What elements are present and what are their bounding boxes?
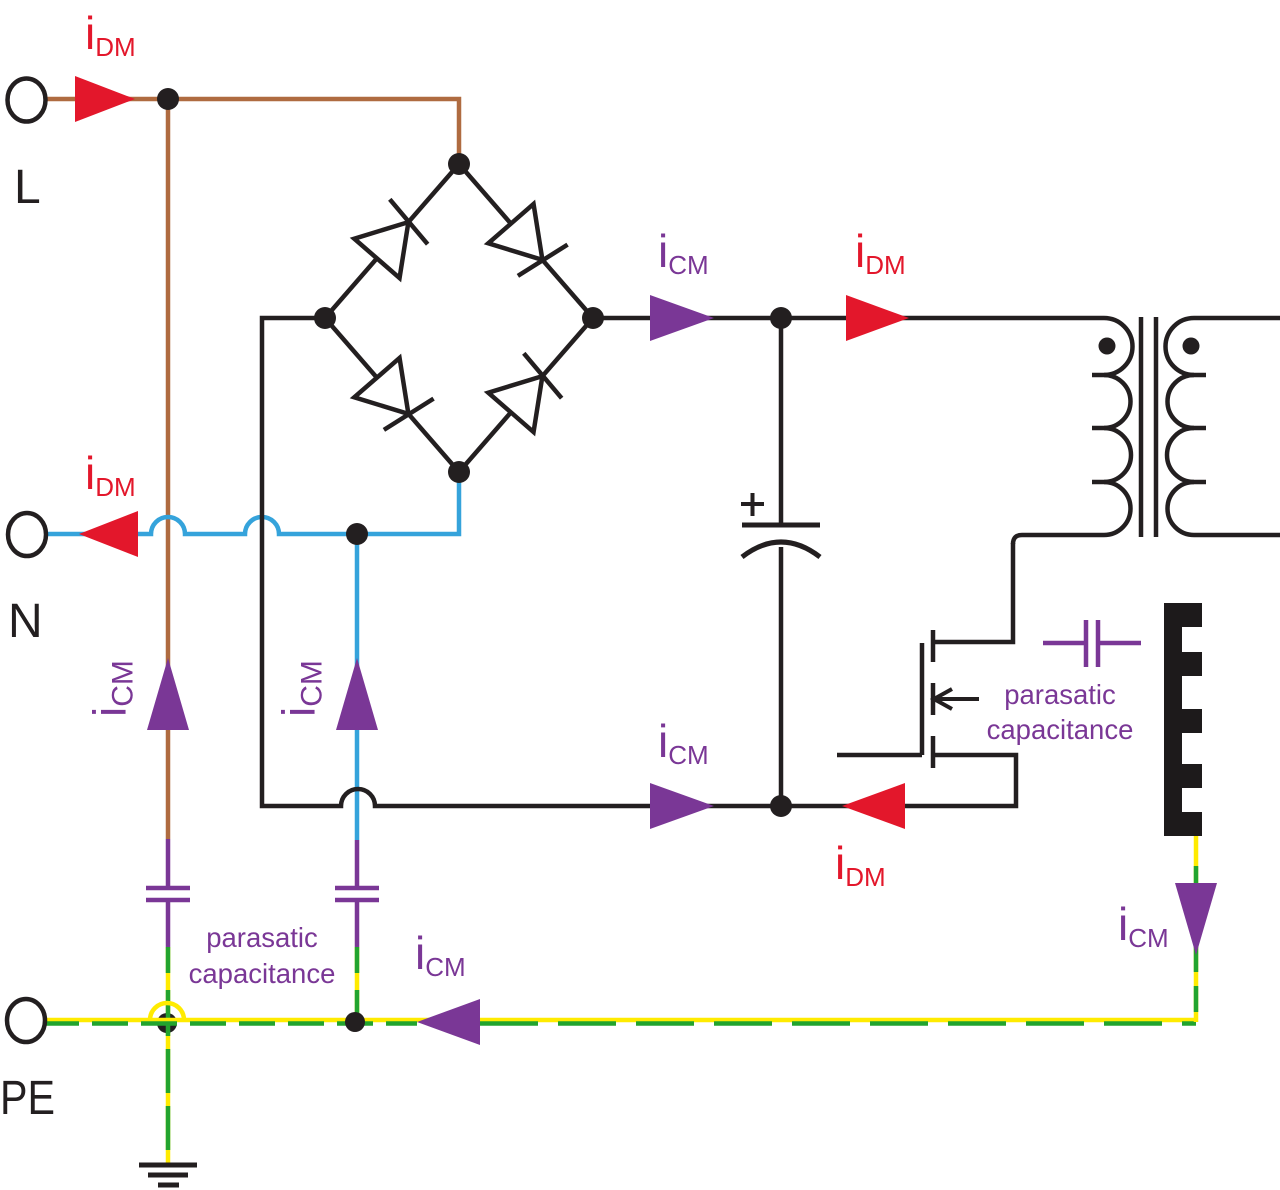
node bridge left [314,307,336,329]
diode D1 top-left [354,199,434,278]
wire PE yellow base vertical left [166,947,171,1167]
wire purple stub below parasitic capacitor C1 [166,900,171,947]
wire L brown top rail [42,99,459,166]
arrow iCM purple down at heatsink [1175,883,1217,955]
wire PE green dashes horizontal [43,1021,417,1026]
svg-text:PE: PE [0,1072,55,1125]
wire brown vertical from L junction [166,99,171,839]
arrow iDM red right at L [75,76,135,122]
wire transformer bottom to MOSFET drain [933,543,1013,642]
parasitic capacitor C1 plates [146,888,190,900]
node bottom rail capacitor junction [770,795,792,817]
transformer T1 primary winding ticks [1092,375,1113,482]
transformer T1 secondary winding ticks [1185,375,1206,482]
capacitor C3 curved bottom plate [742,542,820,557]
capacitor C3 plus sign [741,493,764,516]
wire N cyan with hops [43,474,459,534]
arrow iDM red right on top rail [846,295,909,341]
wire purple stub above parasitic capacitor C1 [166,839,171,886]
node bridge bottom [448,461,470,483]
arrow iCM purple right on bottom rail [650,783,714,829]
wire bridge edge top-right [459,164,593,318]
wire bridge edge bottom-right [459,318,593,472]
wire PE green dashes horizontal right part [480,1021,1196,1026]
node L junction [157,88,179,110]
arrow iCM purple left on PE line [417,999,480,1045]
svg-text:capacitance: capacitance [987,714,1134,745]
arrow iCM purple up on brown line [147,658,189,730]
transformer T1 primary phase dot [1099,338,1116,355]
heatsink [1164,603,1202,836]
ground [139,1165,197,1185]
diode D2 top-right [488,204,568,283]
node top rail capacitor junction [770,307,792,329]
terminal N [8,513,46,556]
wire PE yellow base vertical right from heatsink [1194,836,1199,1022]
parasitic capacitor C4 plates [1086,620,1098,667]
transistor Q1 gate lead [837,753,922,758]
wire PE yellow base vertical mid [355,947,360,1022]
svg-text:capacitance: capacitance [189,958,336,989]
arrow iDM red left on bottom rail [842,783,905,829]
wire yellow hop at PE junction [150,1003,184,1020]
node bridge top [448,153,470,175]
wire PE green dashes vertical mid [355,947,360,1022]
node bridge right [582,307,604,329]
wire capacitor top stem [779,318,784,524]
wire bridge edge bottom-left [325,318,459,472]
svg-text:L: L [14,161,41,214]
wire PE green dashes vertical right [1194,866,1199,1022]
arrow iCM purple up on cyan line [336,658,378,730]
arrow iCM purple right on top rail [650,295,714,341]
svg-text:parasatic: parasatic [206,922,318,953]
wire PE green dashes vertical left [166,947,171,1150]
terminal L [8,79,46,122]
transformer T1 secondary winding [1166,318,1280,535]
transformer T1 secondary phase dot [1183,338,1200,355]
capacitor C3 electrolytic top plate [742,523,820,528]
node PE junction mid [345,1012,365,1032]
wire purple stub below parasitic capacitor C2 [355,900,360,947]
node PE junction left (under wires) [157,1013,177,1033]
svg-text:parasatic: parasatic [1004,679,1116,710]
arrow iDM red left at N [79,511,138,557]
transformer T1 core [1141,317,1156,537]
wire bridge edge top-left [325,164,459,318]
wire black positive top rail [593,316,1104,321]
node N junction [346,523,368,545]
wire PE yellow base horizontal [43,1018,1196,1023]
diode D4 bottom-right [488,353,568,432]
transformer T1 primary winding [1013,318,1133,544]
transistor Q1 body arrow [934,689,979,709]
diode D3 bottom-left [354,358,434,437]
terminal PE [7,999,45,1042]
wire black negative rail with hop over cyan [262,318,1016,806]
svg-text:N: N [8,595,43,648]
wire cyan vertical from N junction [355,534,360,840]
wire capacitor bottom stem [779,547,784,806]
parasitic capacitor C2 plates [335,888,379,900]
wire purple stub above parasitic capacitor C2 [355,840,360,886]
transistor Q1 channel segments [931,630,936,768]
parasitic capacitor C4 at MOSFET leads [1043,641,1141,646]
transistor Q1 gate bar [920,643,925,755]
